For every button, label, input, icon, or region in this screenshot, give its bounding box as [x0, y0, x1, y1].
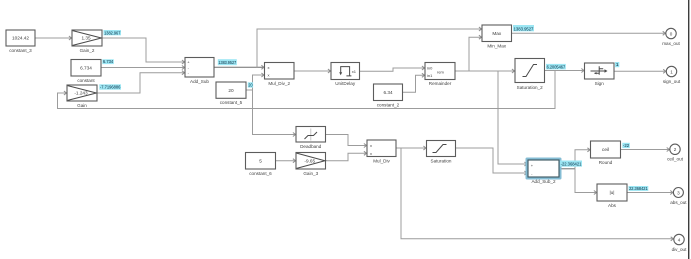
svg-text:constant_6: constant_6	[249, 171, 272, 176]
svg-text:6.34: 6.34	[383, 90, 393, 95]
svg-text:1: 1	[670, 69, 673, 74]
svg-text:20: 20	[228, 88, 234, 93]
svg-text:1383.9527: 1383.9527	[218, 60, 236, 65]
svg-text:Gain: Gain	[77, 103, 87, 108]
svg-text:0: 0	[670, 31, 673, 36]
svg-text:Saturation_2: Saturation_2	[517, 85, 543, 90]
value label -22	[622, 143, 630, 148]
svg-text:3: 3	[677, 190, 680, 195]
wire branch up to Round input	[575, 148, 590, 169]
wire Gain to Add_Sub input 3	[97, 71, 185, 93]
block Add_Sub	[185, 58, 214, 84]
value label 6.734	[102, 59, 114, 64]
wire constant_5 to Mul_Div_2 input 2	[246, 73, 264, 90]
svg-text:constant_2: constant_2	[377, 102, 400, 107]
svg-text:Deadband: Deadband	[300, 144, 322, 149]
wire UnitDelay to Remainder in0	[360, 66, 425, 71]
svg-text:Min_Max: Min_Max	[487, 43, 506, 48]
svg-text:Saturation: Saturation	[431, 158, 452, 163]
block constant_5	[216, 82, 246, 105]
wire Add_Sub_2 output to branch	[559, 168, 575, 170]
svg-text:Remainder: Remainder	[429, 81, 452, 86]
svg-text:-7.7196886: -7.7196886	[100, 85, 121, 90]
value label 20	[248, 82, 253, 87]
wire Gain_2 to Add_Sub input 1	[102, 38, 185, 64]
svg-text:-22: -22	[623, 143, 630, 148]
svg-text:sign_out: sign_out	[663, 79, 681, 84]
block Gain_2	[72, 30, 102, 53]
wire branch Add_Sub output up to Max input 1	[257, 27, 482, 67]
block Max	[482, 25, 512, 48]
wire Gain_3 to Mul_Div input 2	[326, 151, 367, 160]
wire branch Remainder output down to Add_Sub_2 input 1	[498, 71, 527, 166]
svg-text:Abs: Abs	[608, 203, 617, 208]
wire Saturation to Add_Sub_2 input 2	[456, 148, 528, 175]
block constant	[71, 60, 101, 83]
wire branch Remainder output up to Max input 2	[469, 35, 482, 71]
svg-text:2: 2	[674, 147, 677, 152]
svg-text:5: 5	[259, 158, 262, 163]
output port sign_out	[663, 66, 681, 84]
svg-text:22.368421: 22.368421	[629, 186, 648, 191]
wire constant to Add_Sub input 2	[101, 66, 185, 70]
wire Remainder to Saturation_2	[455, 69, 515, 73]
block Gain_3	[296, 153, 326, 176]
svg-text:ceil: ceil	[602, 147, 609, 152]
svg-text:x: x	[370, 151, 372, 156]
block constant_6	[246, 153, 276, 176]
svg-text:rem: rem	[437, 69, 445, 74]
svg-text:1383.9527: 1383.9527	[514, 26, 534, 31]
block Remainder	[425, 63, 455, 87]
block Saturation	[427, 141, 456, 164]
wire Mul_Div_2 to UnitDelay	[294, 69, 331, 73]
wire Mul_Div to Saturation	[396, 146, 426, 150]
value label 1383.9527	[513, 25, 534, 31]
value label 6.2005467	[546, 64, 566, 70]
wire feedback Saturation_2 output to Gain input	[58, 71, 556, 109]
wire Deadband to Mul_Div input 1	[326, 135, 367, 148]
block Mul_Div	[367, 140, 396, 163]
svg-text:Gain_2: Gain_2	[80, 48, 95, 53]
output port abs_out	[670, 188, 687, 205]
block Saturation_2	[515, 59, 545, 90]
wire branch constant_5 down to Deadband input	[253, 90, 296, 137]
block Deadband	[296, 127, 326, 149]
block UnitDelay	[331, 63, 360, 87]
block constant_2	[374, 84, 403, 107]
svg-text:in1: in1	[427, 73, 433, 78]
svg-text:abs_out: abs_out	[670, 200, 687, 205]
wire constant_2 to Remainder in1	[403, 73, 425, 92]
block Mul_Div_2	[265, 63, 295, 86]
value label -7.7196886	[99, 84, 121, 89]
svg-text:20: 20	[248, 83, 253, 88]
svg-text:-1.243: -1.243	[74, 91, 88, 96]
svg-text:constant_5: constant_5	[220, 100, 243, 105]
svg-text:Mul_Div: Mul_Div	[373, 158, 390, 163]
svg-text:Add_Sub_2: Add_Sub_2	[531, 179, 555, 184]
svg-text:in0: in0	[427, 66, 433, 71]
panel border right	[688, 0, 690, 259]
svg-text:constant_3: constant_3	[9, 48, 32, 53]
svg-text:max_out: max_out	[662, 41, 680, 46]
wire branch Mul_Div output down to div_out	[401, 148, 673, 241]
svg-text:Gain_3: Gain_3	[303, 171, 318, 176]
svg-text:x: x	[370, 143, 372, 148]
svg-text:x: x	[268, 73, 270, 78]
svg-text:-9.65: -9.65	[304, 158, 315, 163]
svg-text:x: x	[268, 65, 270, 70]
svg-text:1024.42: 1024.42	[12, 36, 29, 41]
output port div_out	[672, 234, 688, 252]
wire Saturation_2 to Sign	[545, 69, 585, 73]
svg-text:Add_Sub: Add_Sub	[190, 79, 209, 84]
wire constant_3 to Gain_2	[35, 36, 72, 40]
wire branch down to Abs input	[575, 169, 597, 195]
svg-text:div_out: div_out	[672, 247, 688, 252]
block Gain	[67, 85, 97, 108]
output port ceil_out	[667, 144, 684, 162]
value label 1383.9527	[218, 59, 237, 65]
value label 22.368421	[629, 186, 649, 191]
block Sign	[585, 63, 615, 86]
block Abs	[597, 184, 627, 208]
svg-text:Max: Max	[492, 31, 502, 36]
svg-text:UnitDelay: UnitDelay	[335, 81, 356, 86]
svg-text:Sign: Sign	[595, 81, 605, 86]
svg-text:6.734: 6.734	[80, 65, 92, 70]
wire Add_Sub to Mul_Div_2 input 1	[214, 65, 264, 69]
svg-text:Round: Round	[599, 160, 613, 165]
value label 1382.967	[104, 30, 122, 35]
svg-text:6.734: 6.734	[103, 59, 114, 64]
svg-text:constant: constant	[77, 78, 95, 83]
svg-text:6.2005467: 6.2005467	[547, 64, 566, 69]
wire Sign to sign_out	[614, 69, 666, 73]
svg-text:1382.967: 1382.967	[104, 30, 121, 35]
svg-text:ceil_out: ceil_out	[667, 157, 684, 162]
block Add_Sub_2 selected	[527, 159, 561, 184]
block constant_3	[6, 30, 35, 53]
wire Round to ceil_out	[621, 148, 670, 152]
wire Abs to abs_out	[627, 191, 673, 195]
wire constant_6 to Gain_3	[276, 159, 296, 163]
wire Max to max_out	[512, 31, 666, 35]
block Round	[591, 141, 621, 165]
svg-text:-22.368421: -22.368421	[561, 162, 582, 167]
value label 1	[615, 62, 619, 67]
output port max_out	[662, 28, 680, 46]
svg-text:Mul_Div_2: Mul_Div_2	[268, 81, 290, 86]
value label -22.368421	[560, 161, 582, 167]
svg-text:4: 4	[678, 237, 681, 242]
svg-text:|u|: |u|	[609, 190, 614, 195]
svg-text:1.35: 1.35	[81, 36, 91, 41]
